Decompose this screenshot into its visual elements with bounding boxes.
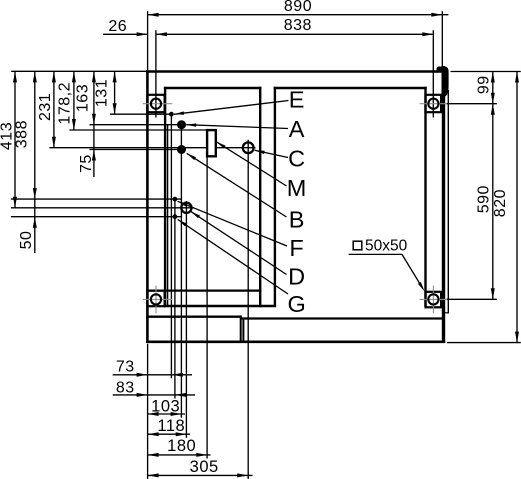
leader line to hole D (191, 211, 287, 274)
wire: right extension at bottom-right bolt (447, 298, 497, 300)
base top edge right segment (240, 317, 443, 319)
leader line to hole F (178, 201, 287, 246)
leader line for 50x50 note (349, 254, 425, 291)
svg-text:820: 820 (492, 189, 509, 217)
svg-text:118: 118 (157, 417, 185, 435)
note square 50x50 symbol (353, 241, 362, 250)
hole G (173, 214, 178, 219)
wire: vertical centerline through hole C (247, 140, 249, 479)
dimension 99 (475, 72, 494, 300)
crosshair top-right bolt (420, 103, 448, 105)
svg-text:B: B (289, 206, 305, 232)
bolt hole top-left (151, 99, 161, 109)
leader line to hole C (255, 150, 288, 157)
wire: top extension line, frame right edge up (441, 11, 443, 66)
hole C (243, 142, 254, 153)
crosshair bottom-left bolt (143, 298, 173, 300)
svg-text:178,2: 178,2 (57, 82, 74, 125)
wire: bottom extension, frame left edge down (147, 344, 149, 479)
dimension 231 (37, 71, 56, 147)
svg-text:83: 83 (116, 379, 135, 396)
bolt hole top-right (428, 99, 438, 109)
inner profile line of left sub-panel (167, 125, 169, 306)
wire: top extension, left bolt centerline (155, 30, 157, 117)
dimension 118 (148, 417, 190, 436)
dimension 178,2 (57, 71, 76, 130)
svg-text:75: 75 (78, 154, 95, 173)
svg-text:590: 590 (476, 185, 493, 213)
dimension 305 (148, 458, 253, 478)
wire: left horizontal extension at frame top (11, 70, 146, 72)
bolt square bottom-left (147, 291, 164, 307)
leader line to hole M (216, 142, 286, 186)
svg-text:50x50: 50x50 (365, 237, 408, 254)
crosshair top-left bolt (143, 103, 173, 105)
wire: extension line at hole A level (90, 124, 182, 126)
wire: extension line at hole B level (90, 149, 182, 151)
hinge block top right (filled) (437, 67, 449, 97)
wire: extension line at hole C level (49, 147, 255, 149)
wire: extension line at slot M top level (69, 129, 207, 131)
dimension 838 (156, 17, 433, 36)
dimension 413 (0, 71, 17, 207)
hole E (169, 112, 174, 117)
bolt square top-right (426, 95, 442, 112)
svg-text:A: A (289, 116, 305, 142)
hole B (177, 145, 186, 154)
leader line to hole E (174, 101, 289, 115)
dimension 388 (13, 71, 36, 253)
frame top edge (146, 70, 438, 72)
wire: vertical centerline through hole D (185, 201, 187, 438)
wire: top extension line, frame left edge up (147, 11, 149, 70)
svg-text:G: G (287, 291, 305, 317)
inner left sub-panel (164, 87, 166, 307)
dimension 103 (148, 398, 185, 416)
dimension 590 (476, 104, 495, 300)
svg-text:D: D (288, 264, 305, 290)
dimension 180 (148, 437, 211, 457)
dimension 75 (78, 150, 96, 173)
base top edge left segment (146, 316, 242, 318)
dimension 50 (18, 217, 37, 250)
hole A (177, 120, 186, 129)
svg-text:26: 26 (108, 18, 127, 35)
wire: extension line at hole G level (11, 216, 181, 218)
wire: right extension at base bottom (447, 342, 521, 344)
base bottom edge (146, 340, 445, 343)
svg-text:231: 231 (37, 93, 54, 121)
hole D (181, 203, 191, 213)
dimension 83 (113, 379, 195, 397)
wire: right extension at top-right bolt (447, 103, 497, 105)
svg-text:131: 131 (94, 79, 111, 107)
wire: vertical centerline through holes A and B (180, 125, 182, 418)
dimension 73 (113, 359, 192, 377)
svg-text:73: 73 (116, 359, 135, 376)
svg-text:50: 50 (18, 231, 35, 250)
wire: vertical centerline through hole E (170, 114, 172, 378)
base notch right line (242, 318, 244, 342)
svg-text:C: C (288, 145, 305, 171)
wire: extension line at hole F level (11, 198, 181, 200)
rail line across left sub-panel bottom (146, 290, 261, 292)
wire: vertical centerline through holes F and G (174, 197, 176, 399)
dimension 890 (148, 0, 449, 17)
bolt square bottom-right (426, 292, 442, 308)
leader line to hole B (187, 153, 287, 217)
wire: right extension at frame top (451, 71, 521, 73)
svg-text:103: 103 (151, 398, 180, 416)
inner right panel (open-bottom) (274, 87, 276, 307)
svg-text:838: 838 (284, 17, 312, 34)
bolt hole bottom-right (428, 294, 438, 304)
svg-text:413: 413 (0, 122, 15, 150)
wire: vertical extension from slot M (206, 156, 208, 458)
svg-text:388: 388 (13, 120, 30, 148)
hole F (173, 197, 178, 202)
frame right edge (442, 66, 445, 343)
svg-text:E: E (289, 86, 305, 112)
slot M rectangle (207, 130, 216, 156)
bolt hole bottom-left (151, 294, 161, 304)
svg-text:M: M (287, 175, 307, 201)
wire: extension line at hole D level (11, 207, 194, 209)
svg-text:163: 163 (75, 84, 92, 112)
leader line to hole G (178, 219, 288, 294)
base notch left line (240, 315, 242, 341)
wire: top extension, right bolt centerline (432, 30, 434, 117)
bolt square top-left (147, 95, 164, 112)
svg-text:890: 890 (284, 0, 312, 15)
crosshair bottom-right bolt (420, 298, 448, 300)
svg-text:99: 99 (475, 75, 492, 94)
svg-text:180: 180 (167, 437, 196, 455)
wire: extension line at hole E level (110, 113, 171, 115)
dimension 163 (75, 71, 96, 177)
dimension 26 (103, 18, 148, 36)
dimension 820 (492, 72, 519, 343)
leader line to hole A (186, 123, 288, 128)
door edge thin line at right (447, 90, 449, 313)
dimension 131 (94, 71, 117, 114)
svg-text:F: F (289, 235, 303, 261)
frame left edge (146, 70, 149, 343)
svg-text:305: 305 (190, 458, 219, 476)
